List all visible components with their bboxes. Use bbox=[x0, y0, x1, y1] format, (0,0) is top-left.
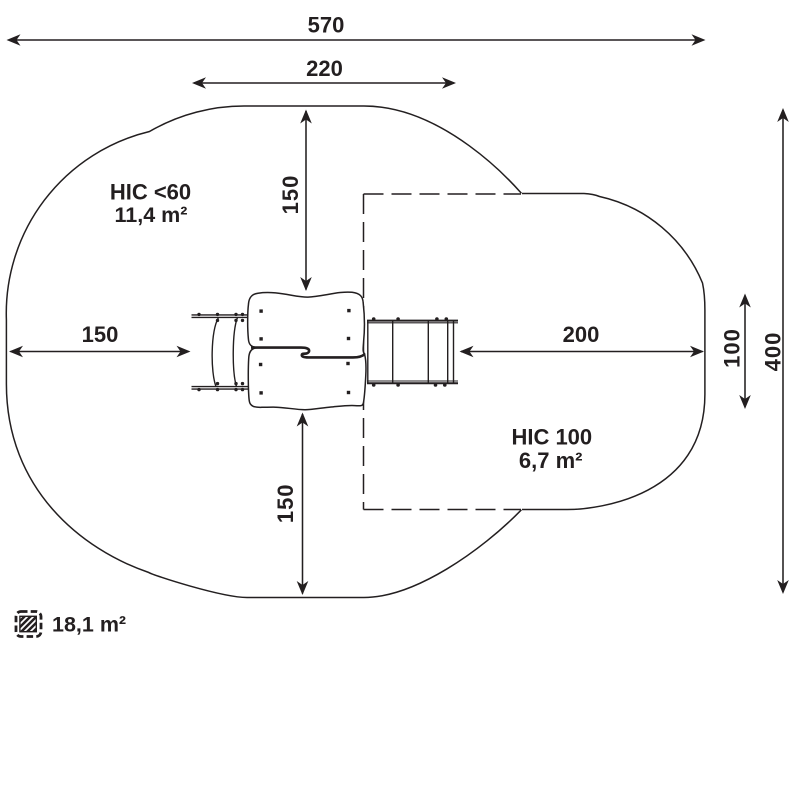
dimension 150 bottom vertical bbox=[302, 414, 304, 594]
svg-text:150: 150 bbox=[82, 322, 119, 347]
dimension 570 bbox=[9, 39, 704, 41]
climber arc 1 bbox=[212, 317, 218, 386]
svg-text:150: 150 bbox=[278, 175, 303, 215]
dimension 200 right bbox=[461, 351, 703, 353]
ladder bolts bbox=[372, 317, 448, 387]
svg-text:200: 200 bbox=[563, 322, 600, 347]
dimension 150 left bbox=[11, 351, 189, 353]
legend icon: hatched square bbox=[0, 610, 52, 638]
legend icon: dashed square bbox=[16, 612, 41, 637]
safety zone blob HIC<60 outline bbox=[6, 106, 521, 598]
equipment: top panel bbox=[248, 292, 365, 357]
seam (thick interlock line) bbox=[251, 348, 365, 358]
equipment: ladder (right) bbox=[367, 321, 458, 384]
svg-text:150: 150 bbox=[273, 483, 298, 523]
HIC 100 zone solid outline bbox=[522, 194, 705, 510]
svg-text:11,4 m²: 11,4 m² bbox=[115, 203, 188, 227]
panel bolts bbox=[259, 309, 351, 395]
equipment: left climber rails bbox=[192, 315, 249, 389]
svg-text:400: 400 bbox=[760, 332, 785, 372]
climber bolts bbox=[197, 313, 244, 392]
svg-text:6,7 m²: 6,7 m² bbox=[519, 448, 583, 473]
dimension 220 bbox=[194, 82, 454, 84]
dimension 400 vertical right bbox=[782, 110, 784, 592]
svg-text:100: 100 bbox=[719, 328, 744, 368]
svg-text:HIC 100: HIC 100 bbox=[511, 425, 592, 450]
svg-text:570: 570 bbox=[308, 13, 345, 38]
dashed rectangle (HIC 100 inside blob) bbox=[364, 194, 522, 510]
svg-text:HIC <60: HIC <60 bbox=[110, 180, 191, 205]
equipment: bottom panel bbox=[248, 348, 366, 410]
svg-text:220: 220 bbox=[306, 56, 343, 81]
climber arc 2 bbox=[233, 317, 237, 386]
dimension 100 vertical right bbox=[744, 296, 746, 408]
svg-text:18,1 m²: 18,1 m² bbox=[52, 613, 126, 637]
dimension 150 top vertical bbox=[305, 111, 307, 290]
